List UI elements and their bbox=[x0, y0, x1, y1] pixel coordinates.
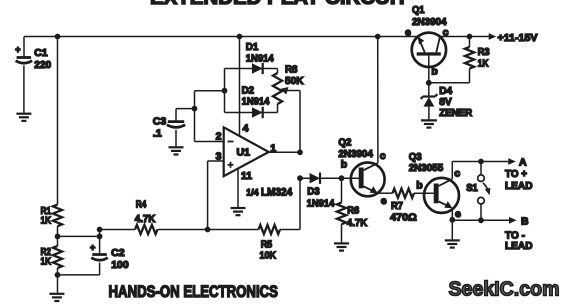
node D3 left junction bbox=[297, 175, 303, 181]
node Q2 base junction bbox=[339, 175, 345, 181]
wire R7 to Q3 base bbox=[414, 192, 434, 194]
svg-text:R5: R5 bbox=[261, 238, 273, 250]
wire R3 top lead bbox=[469, 37, 471, 48]
caption HANDS-ON ELECTRONICS bbox=[109, 283, 279, 301]
label Q2 c bbox=[380, 150, 386, 162]
wire C3 top lead bbox=[175, 109, 177, 121]
svg-text:e: e bbox=[405, 27, 411, 39]
svg-text:2N3904: 2N3904 bbox=[412, 16, 447, 28]
wire pin2 vertical bbox=[194, 91, 196, 142]
svg-text:3: 3 bbox=[216, 150, 222, 162]
label D3 bbox=[307, 186, 335, 210]
wire C1 bottom lead bbox=[23, 66, 25, 113]
wire wiper to output node bbox=[299, 91, 301, 153]
svg-text:D3: D3 bbox=[307, 186, 320, 198]
svg-text:HANDS-ON ELECTRONICS: HANDS-ON ELECTRONICS bbox=[109, 283, 279, 301]
svg-text:470Ω: 470Ω bbox=[390, 211, 417, 223]
svg-text:50K: 50K bbox=[285, 75, 304, 87]
wire R3 to Q1 base bbox=[429, 82, 470, 84]
wire left rail down bbox=[57, 37, 59, 205]
label pin 4 bbox=[243, 122, 249, 134]
svg-text:R6: R6 bbox=[347, 205, 359, 217]
wire R6 top lead bbox=[341, 178, 343, 202]
label B bbox=[521, 216, 529, 228]
svg-text:1N914: 1N914 bbox=[246, 52, 274, 64]
resistor R1 bbox=[53, 205, 62, 227]
transistor Q3 bbox=[424, 178, 459, 213]
node junction C1/left-rail bbox=[55, 34, 61, 40]
svg-text:b: b bbox=[341, 159, 347, 171]
svg-text:D2: D2 bbox=[242, 84, 255, 96]
label A bbox=[519, 157, 527, 169]
wire top supply rail bbox=[24, 36, 418, 38]
svg-text:ZENER: ZENER bbox=[439, 107, 472, 119]
svg-text:+: + bbox=[90, 243, 95, 253]
svg-text:4.7K: 4.7K bbox=[135, 213, 156, 225]
svg-text:EXTENDED PLAY CIRCUIT: EXTENDED PLAY CIRCUIT bbox=[150, 0, 408, 9]
label R6 bbox=[347, 205, 368, 229]
label Q1 b bbox=[431, 66, 437, 78]
wire D3 line bbox=[300, 177, 342, 179]
wire D4 bottom lead bbox=[428, 107, 430, 120]
wire output A line bbox=[452, 158, 516, 165]
svg-text:+: + bbox=[15, 45, 20, 55]
wire C1 top lead bbox=[23, 37, 25, 57]
wire pin3 vertical bbox=[207, 161, 209, 230]
svg-text:Q2: Q2 bbox=[338, 136, 351, 148]
label pin 2 bbox=[216, 130, 222, 142]
node Q3 emitter junction bbox=[449, 217, 455, 223]
node junction pin4 branch bbox=[237, 34, 243, 40]
resistor R6 bbox=[337, 203, 346, 225]
wire Q2 base bbox=[342, 177, 359, 179]
resistor R7 bbox=[393, 189, 415, 198]
label D2 bbox=[242, 84, 270, 107]
wire C3 jog bbox=[176, 108, 195, 110]
node R1/R2 junction bbox=[55, 234, 61, 240]
svg-text:R3: R3 bbox=[478, 46, 490, 58]
arrow supply output bbox=[489, 33, 497, 40]
label pin 11 bbox=[241, 170, 252, 182]
label +11-15V bbox=[498, 32, 538, 44]
node C2/R1R2 jog junction bbox=[97, 234, 103, 240]
wire node to R5 bbox=[208, 229, 259, 231]
node D1D2 left rail junction bbox=[222, 88, 228, 94]
label R1 bbox=[41, 205, 52, 227]
label Q1 bbox=[412, 4, 447, 28]
label Q2 b bbox=[341, 159, 347, 171]
diode D1 bbox=[252, 63, 263, 74]
capacitor C3 bbox=[167, 122, 185, 128]
wire R6 bottom lead bbox=[341, 224, 343, 242]
svg-text:10K: 10K bbox=[260, 250, 277, 262]
svg-text:1K: 1K bbox=[41, 256, 52, 268]
svg-text:1/4: 1/4 bbox=[246, 187, 259, 198]
svg-text:D1: D1 bbox=[246, 41, 259, 53]
svg-text:e: e bbox=[381, 195, 387, 207]
resistor R5 bbox=[259, 225, 281, 234]
svg-text:e: e bbox=[455, 208, 461, 220]
ground under C1 bbox=[16, 114, 31, 121]
wire R2 bottom lead bbox=[57, 268, 59, 293]
node R2/C2 bottom junction bbox=[55, 272, 61, 278]
svg-text:+11-15V: +11-15V bbox=[498, 32, 538, 44]
ground under D4 bbox=[421, 120, 437, 127]
transistor Q1 bbox=[412, 33, 446, 67]
svg-text:1K: 1K bbox=[478, 57, 489, 69]
wire C2 bottom jog bbox=[58, 274, 100, 276]
label C3 value bbox=[153, 116, 167, 140]
wire Q2 emitter out bbox=[377, 192, 393, 194]
wire jog to D1D2 rail bbox=[195, 90, 225, 92]
label Q3 e bbox=[455, 208, 461, 220]
wire Q1 base down bbox=[428, 56, 430, 83]
label Q3 b bbox=[416, 180, 422, 192]
wire Q3 emitter down bbox=[451, 208, 453, 239]
label R4 bbox=[135, 199, 156, 225]
ground under R2 bbox=[49, 294, 64, 301]
label S1 bbox=[466, 182, 478, 194]
svg-text:b: b bbox=[431, 66, 437, 78]
node junction Q2 collector bbox=[375, 34, 381, 40]
svg-text:R4: R4 bbox=[136, 199, 147, 211]
op-amp U1 bbox=[224, 127, 269, 176]
wire feedback vertical up bbox=[299, 178, 301, 229]
label D4 8V ZENER bbox=[439, 85, 472, 119]
svg-text:C3: C3 bbox=[153, 116, 167, 128]
wire C2 vertical bbox=[99, 230, 101, 254]
svg-text:1N914: 1N914 bbox=[242, 96, 270, 108]
wire D1 line bbox=[225, 68, 278, 70]
svg-text:100: 100 bbox=[111, 259, 129, 271]
label pin 3 bbox=[216, 150, 222, 162]
svg-text:c: c bbox=[380, 150, 386, 162]
svg-text:2: 2 bbox=[216, 130, 222, 142]
svg-text:LM324: LM324 bbox=[261, 187, 293, 199]
resistor R3 bbox=[465, 47, 474, 69]
svg-text:4.7K: 4.7K bbox=[347, 217, 368, 229]
resistor R4 bbox=[135, 225, 158, 234]
ground under C3 bbox=[169, 147, 184, 154]
wire D1D2 left rail bbox=[224, 69, 226, 113]
svg-text:220: 220 bbox=[34, 59, 51, 71]
wire pin11 vertical bbox=[237, 168, 239, 207]
wire R3 bottom lead bbox=[469, 69, 471, 83]
svg-text:U1: U1 bbox=[237, 147, 251, 159]
resistor R2 bbox=[53, 246, 62, 268]
svg-text:b: b bbox=[416, 180, 422, 192]
svg-text:R7: R7 bbox=[391, 200, 403, 212]
diode D2 bbox=[252, 107, 263, 118]
title EXTENDED PLAY CIRCUIT (cropped) bbox=[150, 0, 408, 9]
label R3 bbox=[478, 46, 490, 69]
ground under pin11 bbox=[231, 208, 246, 215]
label Q3 bbox=[409, 151, 444, 174]
svg-text:LEAD: LEAD bbox=[505, 240, 533, 252]
wire R5 to vertical bbox=[280, 229, 300, 231]
label TO - LEAD bbox=[505, 230, 533, 253]
label pin 1 bbox=[270, 142, 276, 154]
wire D4 top lead bbox=[428, 83, 430, 97]
label TO + LEAD bbox=[505, 168, 533, 192]
svg-text:A: A bbox=[519, 157, 527, 169]
wire Q3 collector up bbox=[451, 162, 453, 179]
svg-text:R8: R8 bbox=[285, 63, 298, 75]
label Q1 c bbox=[443, 27, 449, 39]
potentiometer R8 bbox=[273, 69, 282, 113]
diode D3 bbox=[310, 173, 320, 184]
wire C2 bottom lead bbox=[99, 263, 101, 275]
label R7 bbox=[390, 200, 417, 223]
wire C3 bottom lead bbox=[175, 130, 177, 147]
wire pin3 horizontal bbox=[208, 160, 224, 162]
svg-text:SeekIC.com: SeekIC.com bbox=[449, 279, 560, 301]
svg-text:2N3055: 2N3055 bbox=[409, 162, 444, 174]
label 1/4 LM324 bbox=[246, 187, 293, 199]
node Q1 base/R3 junction bbox=[426, 80, 432, 86]
svg-text:TO +: TO + bbox=[505, 168, 527, 180]
svg-text:C1: C1 bbox=[34, 47, 48, 59]
label Q3 c bbox=[454, 167, 460, 179]
svg-text:Q1: Q1 bbox=[412, 4, 425, 16]
label C1 value bbox=[34, 47, 51, 71]
label Q2 bbox=[338, 136, 373, 159]
wire U1 output bbox=[269, 151, 300, 153]
capacitor C1 bbox=[15, 45, 32, 64]
wire pin2 horizontal bbox=[195, 141, 224, 143]
label R8 bbox=[285, 63, 304, 87]
label C2 value bbox=[111, 247, 129, 271]
node Q1 collector/R3 junction bbox=[467, 34, 473, 40]
label Q1 e bbox=[405, 27, 411, 39]
node A/S1 junction bbox=[478, 159, 484, 165]
svg-text:S1: S1 bbox=[466, 182, 478, 194]
wire Q2 collector up bbox=[377, 37, 379, 163]
node C3/pin2 junction bbox=[192, 106, 198, 112]
wire R2 top lead bbox=[57, 236, 59, 246]
svg-text:.1: .1 bbox=[153, 128, 162, 140]
svg-text:1N914: 1N914 bbox=[307, 197, 335, 209]
svg-text:4: 4 bbox=[243, 122, 249, 134]
label R5 bbox=[260, 238, 277, 261]
zener D4 bbox=[421, 94, 438, 107]
svg-text:B: B bbox=[521, 216, 529, 228]
svg-text:LEAD: LEAD bbox=[505, 180, 533, 192]
ground under R6 bbox=[334, 243, 349, 250]
svg-text:1K: 1K bbox=[41, 215, 52, 227]
node C2 top on R4 line bbox=[97, 227, 103, 233]
label Q2 e bbox=[381, 195, 387, 207]
svg-text:C2: C2 bbox=[111, 247, 125, 259]
wire R1 to junction bbox=[57, 226, 59, 236]
wire Q1 collector to supply bbox=[440, 36, 490, 38]
wiper arrow R8 bbox=[281, 87, 300, 95]
wire R4 left bbox=[100, 229, 135, 231]
ground under Q3 emitter bbox=[445, 240, 460, 247]
wire D2 line bbox=[225, 112, 278, 114]
node B/S1 junction bbox=[478, 217, 484, 223]
wire junction to C2 branch bbox=[58, 235, 100, 237]
node output junction bbox=[297, 149, 303, 155]
watermark SeekIC.com bbox=[449, 279, 560, 301]
wire R4 to node bbox=[158, 229, 208, 231]
capacitor C2 bbox=[90, 243, 108, 261]
transistor Q2 bbox=[351, 163, 385, 197]
label R2 bbox=[41, 246, 52, 268]
label D1 bbox=[246, 41, 274, 64]
wire pin4 vertical bbox=[239, 37, 241, 137]
svg-text:11: 11 bbox=[241, 170, 252, 182]
wire output B line bbox=[452, 217, 516, 224]
node R4/R5/pin3 junction bbox=[205, 227, 211, 233]
svg-text:c: c bbox=[454, 167, 460, 179]
switch S1 bbox=[478, 162, 491, 221]
